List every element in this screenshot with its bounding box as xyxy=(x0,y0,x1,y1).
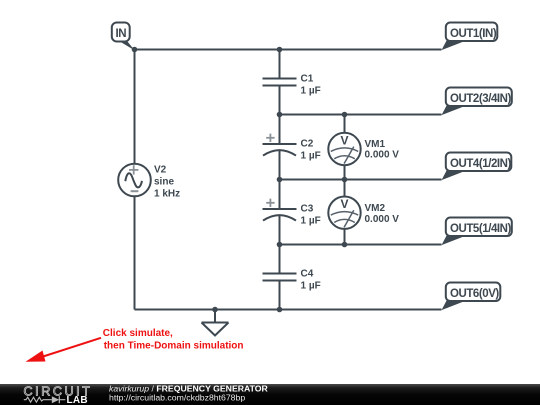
svg-text:1 µF: 1 µF xyxy=(301,216,321,227)
svg-text:OUT2(3/4IN): OUT2(3/4IN) xyxy=(450,93,511,105)
svg-text:http://circuitlab.com/ckdbz8ht: http://circuitlab.com/ckdbz8ht678bp xyxy=(109,393,245,403)
svg-text:1 kHz: 1 kHz xyxy=(154,189,180,200)
svg-text:V: V xyxy=(340,133,348,147)
svg-text:0.000 V: 0.000 V xyxy=(365,214,400,225)
svg-text:LAB: LAB xyxy=(67,395,88,405)
svg-text:then Time-Domain simulation: then Time-Domain simulation xyxy=(104,340,244,351)
svg-text:OUT4(1/2IN): OUT4(1/2IN) xyxy=(450,158,511,170)
svg-text:C3: C3 xyxy=(301,204,314,215)
svg-text:Click simulate,: Click simulate, xyxy=(103,328,173,339)
svg-text:OUT6(0V): OUT6(0V) xyxy=(450,288,499,300)
svg-text:VM2: VM2 xyxy=(365,203,386,214)
svg-text:sine: sine xyxy=(154,177,174,188)
svg-text:V2: V2 xyxy=(154,164,167,175)
svg-text:OUT1(IN): OUT1(IN) xyxy=(450,28,497,40)
svg-text:1 µF: 1 µF xyxy=(301,86,321,97)
svg-text:0.000 V: 0.000 V xyxy=(365,150,400,161)
svg-text:VM1: VM1 xyxy=(365,139,386,150)
svg-text:C2: C2 xyxy=(301,139,314,150)
svg-text:1 µF: 1 µF xyxy=(301,281,321,292)
svg-text:OUT5(1/4IN): OUT5(1/4IN) xyxy=(450,223,511,235)
svg-text:1 µF: 1 µF xyxy=(301,151,321,162)
svg-text:C4: C4 xyxy=(301,269,314,280)
svg-text:C1: C1 xyxy=(301,74,314,85)
svg-text:IN: IN xyxy=(115,28,126,40)
svg-text:V: V xyxy=(340,197,348,211)
